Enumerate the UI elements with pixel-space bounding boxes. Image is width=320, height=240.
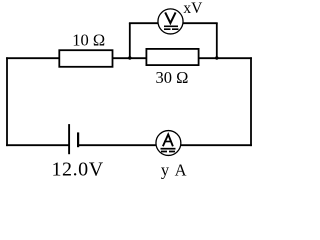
svg-text:10 Ω: 10 Ω <box>72 30 105 49</box>
wire: top side of main loop <box>6 57 252 59</box>
node: junction dot left (voltmeter branch to main wire) <box>128 56 131 59</box>
resistor R1 box <box>59 50 112 67</box>
battery B1 long plate <box>68 124 70 154</box>
svg-text:A: A <box>175 160 187 179</box>
resistor R2 box <box>146 49 198 65</box>
voltmeter U1 solid line of DC symbol <box>164 25 178 27</box>
wire: voltmeter branch right vertical <box>216 23 218 58</box>
ammeter U2 circle <box>156 131 181 156</box>
ammeter U2 letter A crossbar <box>164 141 172 143</box>
svg-text:12.0V: 12.0V <box>52 158 104 180</box>
svg-text:xV: xV <box>183 0 203 17</box>
wire: bottom side, right segment from battery through ammeter to corner <box>78 144 252 146</box>
wire: left side of main loop <box>6 57 8 146</box>
svg-text:30 Ω: 30 Ω <box>156 68 189 87</box>
svg-text:y: y <box>161 160 170 179</box>
ammeter U2 letter A <box>163 134 173 146</box>
wire: voltmeter branch left vertical <box>129 23 131 58</box>
voltmeter U1 letter V <box>165 12 175 23</box>
battery B1 short plate <box>77 132 79 147</box>
voltmeter U1 circle <box>158 9 183 34</box>
wire: voltmeter branch horizontal <box>129 22 218 24</box>
wire: bottom side, left segment from corner to battery <box>6 144 69 146</box>
ammeter U2 dashed line of DC symbol <box>161 151 175 153</box>
ammeter U2 solid line of DC symbol <box>161 148 176 150</box>
node: junction dot right (voltmeter branch to main wire) <box>215 56 218 59</box>
voltmeter U1 dashed line of DC symbol <box>164 28 179 30</box>
wire: right side of main loop <box>250 57 252 146</box>
